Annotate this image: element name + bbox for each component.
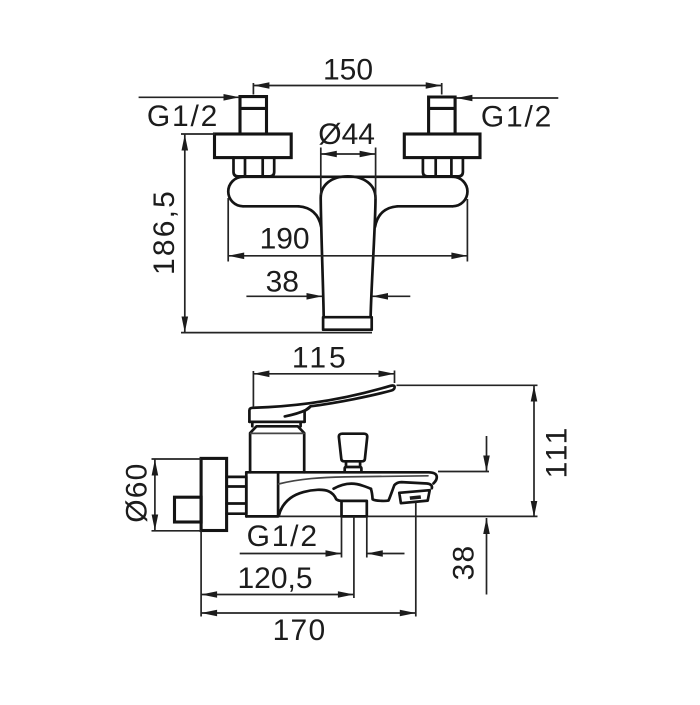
dim 190 ext lines <box>228 198 467 262</box>
svg-text:170: 170 <box>273 614 327 647</box>
dim 38 top-view arrow lines <box>246 295 410 297</box>
right fillet to column <box>375 206 398 227</box>
dim 38 arrows <box>307 293 389 300</box>
spout shoulder line <box>279 476 428 484</box>
dim 170 arrows <box>201 610 416 617</box>
left supply pipe stub <box>240 97 267 134</box>
svg-text:186,5: 186,5 <box>148 189 181 275</box>
body bar bottom left segment <box>243 205 299 208</box>
dim O60 ext lines <box>152 459 202 531</box>
G1/2 right leader <box>456 97 558 99</box>
svg-text:150: 150 <box>323 54 373 87</box>
body block <box>246 472 278 516</box>
dim 111 line <box>533 386 535 518</box>
svg-text:38: 38 <box>266 266 299 299</box>
left wall ext line <box>200 531 202 617</box>
dim 38 right ext line <box>438 471 489 473</box>
dim 115 line <box>253 373 394 375</box>
G1/2 left leader <box>139 96 239 98</box>
dim 38 right arrows <box>483 456 490 535</box>
dim 186,5 ext lines <box>181 134 372 333</box>
G1/2 bottom arrows <box>326 550 383 557</box>
aerator cup quad <box>399 490 429 503</box>
handle grip bottom <box>249 420 304 423</box>
neck ring <box>250 422 305 427</box>
left fillet to column <box>299 206 322 227</box>
svg-text:G1/2: G1/2 <box>481 101 553 134</box>
body bar top edge <box>243 175 453 178</box>
collar shade line <box>251 432 304 434</box>
body top edge with right cap <box>246 472 436 483</box>
spout S-curve <box>279 490 341 516</box>
svg-text:190: 190 <box>260 223 310 256</box>
dim O44 arrows <box>321 151 376 158</box>
dim 186,5 arrows <box>182 135 189 333</box>
cartridge dome and column sides <box>321 176 376 317</box>
left pipe thread divider <box>240 107 267 110</box>
dim 115 ext lines <box>253 371 394 408</box>
svg-text:G1/2: G1/2 <box>247 520 319 553</box>
diverter stem <box>346 461 360 467</box>
dim 38 right arrow lines <box>486 436 488 595</box>
body bar left cap <box>228 177 243 207</box>
right escutcheon flange <box>404 134 480 158</box>
aerator ring line <box>324 316 371 319</box>
svg-text:Ø44: Ø44 <box>318 118 375 151</box>
dim 111 arrows <box>531 386 538 518</box>
left hex nut <box>234 158 275 177</box>
handle underside curve <box>285 406 311 416</box>
shower outlet block <box>342 501 367 517</box>
supply square <box>175 497 202 522</box>
svg-text:120,5: 120,5 <box>237 562 312 595</box>
dim 150 arrows <box>253 82 441 89</box>
right supply pipe stub <box>429 97 456 134</box>
wall nut side view <box>227 477 247 514</box>
dim 150 line <box>253 83 441 95</box>
svg-text:G1/2: G1/2 <box>147 100 219 133</box>
wall flange disc <box>201 458 227 530</box>
dim O60 line <box>154 460 156 531</box>
dim O44 ext lines <box>321 148 376 200</box>
svg-text:Ø60: Ø60 <box>121 462 154 522</box>
contour right of outlet <box>371 482 432 501</box>
body bar bottom right segment <box>398 205 453 208</box>
body block bottom object segment <box>246 515 278 518</box>
dim O60 arrows <box>152 460 159 531</box>
dim 170 line <box>201 612 416 614</box>
dim 186,5 line <box>184 135 186 333</box>
right pipe thread divider <box>429 107 456 110</box>
outlet block bottom object segment <box>342 515 367 518</box>
diverter base ring <box>345 467 362 472</box>
svg-text:115: 115 <box>292 342 349 375</box>
boss arc over outlet <box>334 484 371 489</box>
body bar right cap <box>453 177 468 207</box>
aerator skirt <box>323 317 372 330</box>
left escutcheon flange <box>215 134 292 158</box>
handle lever outline <box>249 386 394 422</box>
cartridge collar <box>250 426 304 472</box>
dim 120,5 arrows <box>201 591 354 598</box>
dim O44 line <box>321 153 376 155</box>
dim 111 ext line top <box>397 384 538 386</box>
outlet ext lines <box>342 503 416 617</box>
bottom plane long line <box>246 515 537 517</box>
right hex nut <box>423 158 463 177</box>
G1/2 bottom leader lines <box>240 553 405 555</box>
aerator slot <box>410 495 422 500</box>
svg-text:38: 38 <box>448 545 481 581</box>
diverter knob cup <box>339 434 367 462</box>
dim 115 arrows <box>253 371 394 378</box>
dim 190 arrows <box>228 253 467 260</box>
svg-text:111: 111 <box>541 425 574 478</box>
dim 190 line <box>228 255 467 257</box>
dim 120,5 line <box>201 594 354 596</box>
